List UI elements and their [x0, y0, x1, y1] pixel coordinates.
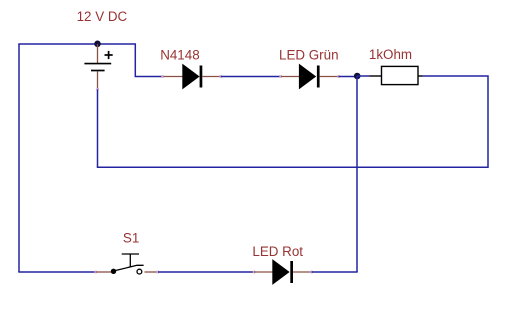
pin end marker left [161, 75, 164, 78]
diode D1 N4148 [161, 64, 222, 90]
cathode bar [290, 261, 293, 283]
pin end marker left [94, 271, 97, 274]
plus sign [105, 54, 113, 56]
wire: battery to middle rail [97, 90, 99, 168]
pin right [202, 76, 221, 78]
pin left [164, 76, 183, 78]
pin end marker left [253, 271, 256, 274]
wire: bottom rail left segment [18, 271, 95, 273]
svg-text:S1: S1 [123, 230, 139, 245]
pin end marker right [157, 271, 160, 274]
svg-text:1kOhm: 1kOhm [369, 47, 412, 62]
actuator stem [129, 254, 131, 267]
pin end marker right [219, 75, 222, 78]
pin left [254, 271, 273, 273]
plate long (positive) [84, 63, 111, 65]
wire: top right drop [135, 44, 164, 77]
body [382, 66, 419, 84]
pin left [281, 76, 299, 78]
wire: junction down to bottom rail [356, 76, 358, 272]
anode triangle [299, 64, 316, 90]
pin end marker right [310, 271, 313, 274]
battery B1 [84, 44, 112, 90]
switch S1 pushbutton [94, 254, 159, 274]
wire: LED Rot to right drop [312, 271, 358, 273]
svg-text:LED Rot: LED Rot [252, 244, 303, 259]
LED D3 red [253, 259, 313, 285]
wire: top horizontal [18, 43, 136, 45]
anode triangle [272, 259, 289, 285]
svg-text:LED Grün: LED Grün [279, 48, 339, 63]
svg-text:12 V DC: 12 V DC [77, 9, 128, 24]
pin left [370, 75, 382, 77]
pin end marker left [279, 75, 282, 78]
node: battery junction [94, 41, 101, 48]
svg-text:N4148: N4148 [160, 48, 199, 63]
pin right [320, 76, 339, 78]
pin (top) [97, 44, 99, 63]
lever [114, 265, 144, 271]
cathode bar [200, 66, 203, 88]
right contact circle [137, 269, 142, 274]
pin right [145, 271, 159, 273]
LED D2 green [279, 64, 340, 90]
plate short (negative) [91, 70, 105, 72]
wire: resistor to right vertical [423, 76, 489, 167]
wire stub from junction [357, 75, 370, 77]
anode triangle [182, 64, 199, 90]
pin end marker [96, 88, 99, 91]
wire: D2 to junction [339, 76, 358, 78]
wire: middle horizontal rail [97, 166, 489, 168]
pin (bottom) [97, 72, 99, 89]
pin right [418, 75, 423, 77]
pin end marker right [337, 75, 340, 78]
wire: S1 to LED Rot [158, 271, 254, 273]
cathode bar [317, 66, 320, 88]
node: resistor junction [354, 73, 361, 80]
pin right [293, 271, 312, 273]
wire: D1 to D2 [221, 76, 281, 78]
actuator bar [122, 253, 139, 255]
wire: left vertical [18, 44, 20, 272]
left contact dot [111, 269, 116, 274]
pin left [96, 271, 112, 273]
resistor R1 1kOhm [357, 66, 423, 84]
